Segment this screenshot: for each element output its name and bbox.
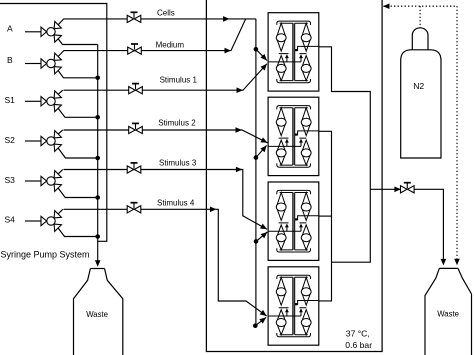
wire: input stub S2 xyxy=(25,140,41,142)
incubator enclosure 37C 0.6 bar xyxy=(206,0,382,352)
arrow: stimulus 2 into chip 2 xyxy=(260,137,268,145)
svg-text:Cells: Cells xyxy=(157,9,175,18)
wire: input stub B xyxy=(25,63,41,65)
arrow: bus into chip 1 xyxy=(260,54,269,63)
wire: manifold branch to outlet valve xyxy=(370,188,400,190)
node: S4 lower junction on waste bus xyxy=(95,234,100,239)
wire: syringe pump waste bus xyxy=(97,45,99,261)
wire: cells-medium bus to chips xyxy=(255,19,257,326)
microfluidic chip U4 xyxy=(268,267,319,345)
microfluidic chip U1 xyxy=(268,13,319,91)
wire: bus branch to chip 2 inlet xyxy=(256,145,267,157)
svg-text:37 °C,: 37 °C, xyxy=(346,329,370,339)
wire: Stimulus 4 supply line xyxy=(64,209,267,316)
three-way valve A xyxy=(41,21,61,42)
wire: input stub S4 xyxy=(25,220,41,222)
two-way valve on Stimulus 2 line xyxy=(129,123,143,133)
arrow: bus into chip 3 xyxy=(261,230,270,238)
wire: N2 pressure dotted line horizontal xyxy=(384,5,457,7)
three-way valve B xyxy=(41,53,61,74)
wire: S3 lower branch xyxy=(58,188,97,197)
wire: S4 lower branch xyxy=(58,228,97,236)
wire: outlet valve to right waste bottle xyxy=(414,189,444,259)
arrow: dotted N2 line into incubator wall xyxy=(383,3,390,9)
wire: Cells supply line xyxy=(64,18,256,20)
wire: N2 bottle neck dotted riser xyxy=(419,6,421,28)
wire: chip 2 and chip 4 outlet manifold xyxy=(319,131,332,301)
arrow: stimulus 1 into chip 1 xyxy=(260,62,269,71)
wire: feed line from top-left into syringe-pump waste bus xyxy=(0,4,107,242)
two-way valve on Stimulus 4 line xyxy=(127,203,141,213)
wire: input stub S1 xyxy=(25,100,41,102)
wire: bus branch to chip 3 inlet xyxy=(256,232,267,241)
arrow: medium line flow xyxy=(225,48,232,54)
arrow: manifold to outlet valve xyxy=(394,187,401,193)
wire: Stimulus 3 supply line xyxy=(64,170,268,230)
two-way valve on Stimulus 1 line xyxy=(129,84,143,94)
arrow: stimulus 1 flow xyxy=(237,87,244,93)
wire: Medium supply line joining Cells line xyxy=(64,19,246,51)
wire: input stub A xyxy=(25,31,41,33)
two-way valve on Stimulus 3 line xyxy=(127,163,141,173)
three-way valve S2 xyxy=(41,131,61,152)
node: S1 lower junction on waste bus xyxy=(95,115,100,120)
wire: Stimulus 2 supply line xyxy=(64,130,268,143)
wire: S1 upper branch xyxy=(58,90,63,94)
arrow: stimulus 4 into chip 4 xyxy=(260,310,269,318)
arrow: stimulus 3 flow xyxy=(236,167,243,173)
arrow: stimulus 4 flow xyxy=(210,207,217,213)
node: S2 lower junction on waste bus xyxy=(95,156,100,161)
svg-text:S4: S4 xyxy=(5,215,16,225)
wire: A lower branch xyxy=(58,39,97,45)
svg-text:Waste: Waste xyxy=(437,310,459,319)
wire: A upper branch xyxy=(58,19,64,25)
N2 gas cylinder xyxy=(401,28,441,158)
svg-text:N2: N2 xyxy=(413,81,424,91)
wire: chip 3 outlet xyxy=(319,215,332,217)
svg-text:Stimulus 3: Stimulus 3 xyxy=(159,159,197,168)
waste bottle left xyxy=(74,269,123,355)
wire: N2 pressure dotted line to right waste xyxy=(456,6,458,259)
arrow: solid line into right waste bottle xyxy=(441,259,447,266)
two-way valve on Medium line xyxy=(128,44,142,54)
node: bus junction to chip 1 xyxy=(254,47,259,52)
wire: Stimulus 1 supply line xyxy=(64,64,267,90)
svg-text:Medium: Medium xyxy=(156,40,185,49)
wire: bus branch to chip 1 inlet xyxy=(256,49,267,60)
svg-text:Stimulus 1: Stimulus 1 xyxy=(160,75,198,84)
svg-text:Syringe Pump System: Syringe Pump System xyxy=(1,250,90,260)
svg-text:S3: S3 xyxy=(5,175,16,185)
arrow: bus into chip 4 xyxy=(259,315,268,323)
arrow: into left waste bottle xyxy=(95,260,101,267)
waste bottle right xyxy=(425,268,472,355)
svg-text:S2: S2 xyxy=(5,135,16,145)
svg-text:A: A xyxy=(7,23,13,33)
wire: B lower branch xyxy=(58,71,97,78)
node: B lower junction on waste bus xyxy=(95,76,100,81)
arrow: bus into chip 2 xyxy=(260,144,268,153)
arrow: cells line flow xyxy=(223,16,230,22)
node: bus junction to chip 3 xyxy=(254,239,259,244)
three-way valve S3 xyxy=(41,171,61,192)
wire: S1 lower branch xyxy=(58,108,97,117)
node: bus junction to chip 2 xyxy=(254,155,259,160)
arrow: dotted line into right waste bottle xyxy=(454,259,460,266)
svg-text:Stimulus 2: Stimulus 2 xyxy=(158,118,196,127)
three-way valve S1 xyxy=(41,91,61,112)
three-way valve S4 xyxy=(41,211,61,232)
svg-text:Stimulus 4: Stimulus 4 xyxy=(157,198,195,207)
microfluidic chip U3 xyxy=(268,182,319,260)
node: S3 lower junction on waste bus xyxy=(95,195,100,200)
wire: input stub S3 xyxy=(25,180,41,182)
node: bus junction to chip 4 xyxy=(253,323,258,328)
svg-text:B: B xyxy=(7,55,13,65)
wire: bus branch to chip 4 inlet xyxy=(255,317,266,325)
wire: S2 upper branch xyxy=(58,130,63,134)
wire: S2 lower branch xyxy=(58,148,97,158)
arrow: stimulus 2 flow xyxy=(236,127,243,133)
two-way valve on outlet line to waste xyxy=(401,183,415,193)
arrow: stimulus 3 into chip 3 xyxy=(260,224,268,232)
microfluidic chip U2 xyxy=(268,97,319,175)
wire: S3 upper branch xyxy=(58,170,63,174)
wire: B upper branch xyxy=(58,51,64,57)
wire: chip 1 outlet to waste manifold xyxy=(319,47,371,262)
two-way valve on Cells line xyxy=(127,12,141,22)
svg-text:S1: S1 xyxy=(5,95,16,105)
svg-text:0.6 bar: 0.6 bar xyxy=(345,340,372,350)
svg-text:Waste: Waste xyxy=(86,310,108,319)
wire: S4 upper branch xyxy=(58,209,63,214)
